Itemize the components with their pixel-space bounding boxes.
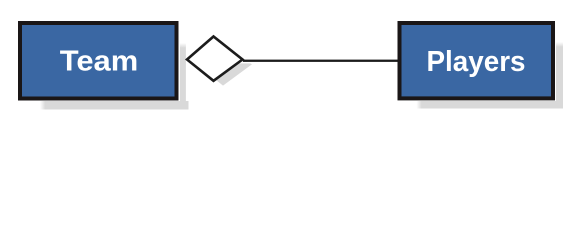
svg-text:Team: Team — [60, 46, 139, 78]
svg-text:Players: Players — [427, 46, 526, 78]
